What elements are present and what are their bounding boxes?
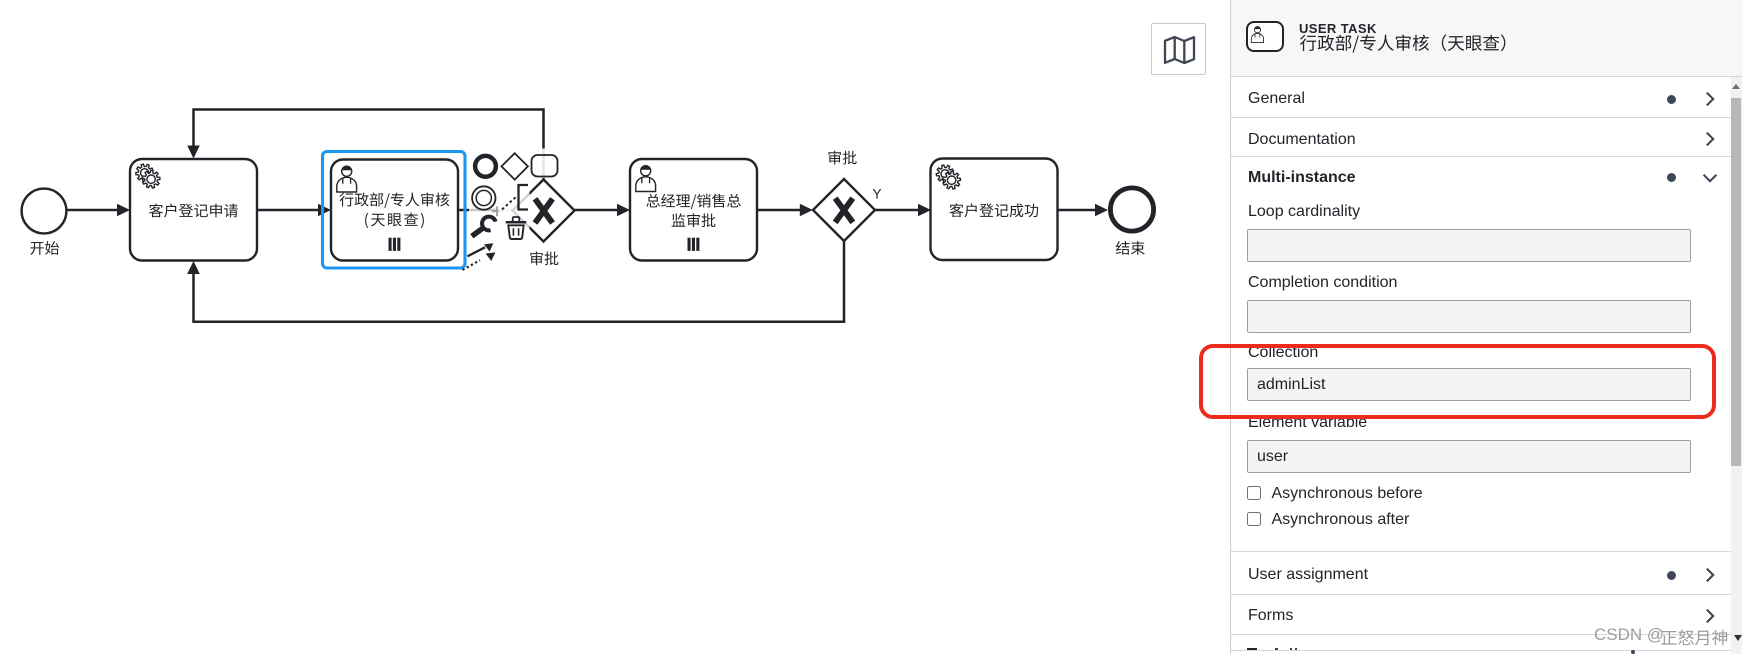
exclusive gateway G2 审批 bbox=[813, 151, 875, 241]
field: Element variable = user bbox=[1248, 415, 1367, 431]
wire: gateway2 loop back to task1 (bottom) bbox=[187, 241, 844, 322]
context pad: append end event icon bbox=[475, 156, 496, 177]
field: Completion condition bbox=[1248, 275, 1397, 291]
section row: Documentation bbox=[1248, 132, 1356, 148]
properties panel bbox=[1230, 0, 1742, 654]
red annotation highlight around Collection bbox=[1199, 344, 1716, 419]
section row: General bbox=[1248, 91, 1305, 107]
wire: task1 to task2 bbox=[257, 204, 331, 217]
wire: gateway1 to task3 bbox=[575, 204, 631, 217]
context pad: append intermediate event icon bbox=[472, 186, 495, 209]
user task 行政部/专人审核 (天眼查), multi-instance bbox=[331, 160, 458, 261]
service task 客户登记申请 bbox=[130, 159, 257, 261]
wire: start event to task1 bbox=[68, 204, 131, 217]
checkbox: Asynchronous after bbox=[1247, 512, 1261, 526]
context pad: append task icon bbox=[532, 155, 558, 177]
section row: User assignment bbox=[1248, 567, 1368, 583]
section row: Multi-instance (expanded) bbox=[1248, 170, 1356, 186]
user task 总经理/销售总监审批, multi-instance bbox=[630, 159, 757, 261]
wire: gateway1 loop back to task1 (top) bbox=[187, 110, 543, 180]
field: Collection = adminList bbox=[1248, 345, 1318, 361]
context pad cell backgrounds (translucent) bbox=[499, 149, 560, 242]
wire: gateway2 to task4, label Y bbox=[873, 187, 932, 217]
minimap toggle button bbox=[1151, 23, 1206, 75]
watermark CSDN @正怒月神 bbox=[1594, 625, 1736, 649]
wire: task3 to gateway2 bbox=[757, 204, 813, 217]
context pad: append text annotation icon bbox=[502, 185, 528, 210]
selection outline (blue) around task2 bbox=[323, 152, 466, 269]
partial bottom section row (clipped) bbox=[1231, 650, 1732, 651]
BPMN diagram canvas bbox=[0, 0, 1230, 654]
end event 结束 bbox=[1110, 188, 1153, 255]
context pad: delete (trash) icon bbox=[506, 217, 526, 239]
start event 开始 bbox=[22, 189, 67, 255]
context pad: append gateway icon bbox=[502, 153, 528, 179]
wire: task4 to end event bbox=[1058, 204, 1109, 217]
checkbox: Asynchronous before bbox=[1247, 486, 1261, 500]
context pad: change type (wrench) icon bbox=[472, 217, 496, 237]
svg-text:Y: Y bbox=[873, 187, 882, 202]
context pad: connect tool icon bbox=[463, 243, 496, 270]
field: Loop cardinality bbox=[1248, 204, 1360, 220]
exclusive gateway G1 审批 bbox=[513, 180, 575, 266]
panel header: USER TASK 行政部/专人审核（天眼查） bbox=[1231, 0, 1742, 77]
service task 客户登记成功 bbox=[931, 159, 1058, 261]
scrollbar bbox=[1731, 77, 1742, 654]
section row: Forms bbox=[1248, 608, 1293, 624]
wire: task2 to gateway1 (faint under context pad, with + handle) bbox=[458, 206, 512, 216]
